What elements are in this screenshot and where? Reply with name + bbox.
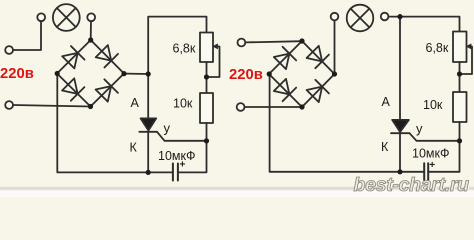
node: cathode 1 bottom rail junction bbox=[146, 170, 151, 175]
svg-text:best-chart.ru: best-chart.ru bbox=[354, 174, 470, 196]
SCR VS1 triangle bbox=[141, 118, 157, 130]
svg-text:6,8к: 6,8к bbox=[426, 41, 449, 55]
diode VD7 (left node to bottom node) bbox=[273, 78, 296, 101]
diode VD4 (bottom node to right node) bbox=[95, 79, 118, 102]
capacitor C1 right plate bbox=[177, 164, 179, 181]
lamp HL2 left terminal bbox=[331, 13, 339, 21]
node: potentiometer 1 wiper junction bbox=[204, 74, 209, 79]
node: bridge 2 left bbox=[267, 71, 272, 76]
wire: potentiometer bottom to 10k resistor bbox=[206, 62, 208, 93]
svg-text:10к: 10к bbox=[423, 98, 443, 112]
wire: bridge 2 left node down and along bottom rail to capacitor bbox=[270, 74, 424, 172]
node: bridge 2 right bbox=[332, 71, 337, 76]
node: bridge 2 bottom bbox=[299, 104, 304, 109]
node: bridge 2 top bbox=[299, 38, 304, 43]
potentiometer R1 wiper arm bbox=[208, 47, 220, 78]
lamp HL1 bbox=[53, 4, 80, 31]
node: gate 2 junction bbox=[457, 138, 462, 143]
wire: lamp right terminal to bridge top node bbox=[90, 21, 92, 40]
svg-text:К: К bbox=[130, 141, 138, 155]
node: bridge 1 left bbox=[55, 71, 60, 76]
svg-text:А: А bbox=[131, 96, 140, 110]
terminal T2 bbox=[5, 101, 13, 109]
diode VD5 (left node to top node) bbox=[273, 47, 296, 70]
svg-text:220в: 220в bbox=[0, 66, 34, 82]
svg-text:у: у bbox=[416, 121, 423, 136]
SCR VS1 cathode bar bbox=[139, 131, 157, 133]
wire: input terminal T3 to bridge top node bbox=[245, 41, 302, 42]
wire: bridge left node down to bottom rail and along bottom to capacitor bbox=[57, 74, 172, 173]
node: SCR 1 anode junction bbox=[146, 71, 151, 76]
svg-text:10мкФ: 10мкФ bbox=[158, 149, 195, 163]
wire: lamp right terminal across top to potentiometer 2 bbox=[388, 17, 459, 32]
SCR VS2 cathode wire to bottom rail bbox=[399, 133, 401, 172]
svg-text:+: + bbox=[180, 160, 186, 171]
lamp left terminal bbox=[37, 13, 45, 21]
node: gate 1 junction bbox=[204, 138, 209, 143]
svg-text:А: А bbox=[382, 95, 391, 109]
SCR VS1 anode wire bbox=[147, 74, 149, 119]
wire: anode node up and across top to potentiometer bbox=[148, 17, 206, 74]
SCR VS2 triangle bbox=[392, 120, 409, 132]
wire: bridge right node to SCR anode node bbox=[124, 73, 148, 75]
terminal T3 bbox=[238, 39, 246, 47]
node: bridge 1 bottom bbox=[88, 104, 93, 109]
resistor R2 10k body bbox=[200, 93, 213, 123]
SCR VS1 cathode wire to bottom rail bbox=[147, 132, 149, 173]
potentiometer R1 wiper arrowhead bbox=[213, 44, 218, 49]
wire: potentiometer 2 bottom to 10k resistor 2 bbox=[459, 62, 461, 92]
lamp HL2 right terminal bbox=[381, 13, 389, 21]
node: bridge 1 right bbox=[121, 71, 126, 76]
diode VD1 (left node to top node) bbox=[61, 46, 84, 69]
svg-text:+: + bbox=[429, 160, 435, 171]
watermark best-chart.ru bbox=[354, 174, 471, 197]
wire: anode node 2 down to SCR 2 bbox=[399, 17, 401, 120]
bottom page edge shadow bbox=[0, 186, 474, 191]
capacitor C1 left plate bbox=[172, 164, 174, 181]
lamp HL2 bbox=[347, 5, 374, 32]
svg-text:К: К bbox=[381, 140, 389, 154]
lamp right terminal bbox=[87, 13, 95, 21]
diode VD6 (top node to right node) bbox=[306, 45, 329, 68]
svg-text:6,8к: 6,8к bbox=[173, 42, 196, 56]
potentiometer R1 6,8k body bbox=[200, 33, 213, 63]
bridge rectifier VD5-VD8 diamond (circuit 2): T(302,41) R(334.5,74) B(302,107) L(269,74) bbox=[269, 41, 335, 107]
potentiometer R3 wiper arrowhead bbox=[466, 44, 471, 49]
bottom white margin bbox=[0, 191, 474, 197]
resistor R4 10k body bbox=[453, 92, 467, 122]
wire: 10k resistor 2 to gate node 2 and down to capacitor 2 bbox=[428, 122, 459, 172]
wire: bridge 2 right node up to lamp left terminal bbox=[334, 20, 336, 74]
node: potentiometer 2 wiper junction bbox=[457, 71, 462, 76]
bridge rectifier VD1-VD4 diamond (circuit 1): T(90.7,40) R(124,73.5) B(90.5,106.5) L(57,73.5) bbox=[57, 40, 124, 107]
wire: input terminal T2 to bridge bottom node bbox=[13, 105, 91, 107]
SCR VS1 gate wire to gate node bbox=[157, 132, 207, 141]
SCR VS2 cathode bar bbox=[391, 132, 410, 134]
capacitor C2 right plate bbox=[427, 163, 429, 180]
svg-text:у: у bbox=[164, 121, 171, 136]
capacitor C2 left plate bbox=[423, 163, 425, 180]
potentiometer R3 6,8k body bbox=[453, 32, 467, 63]
potentiometer R3 wiper arm bbox=[461, 47, 473, 75]
svg-text:10к: 10к bbox=[173, 97, 193, 111]
wire: input terminal T4 to bridge bottom node bbox=[244, 106, 302, 108]
diode VD2 (top node to right node) bbox=[95, 44, 118, 67]
wire: input terminal T1 to lamp left lead bbox=[13, 21, 41, 50]
svg-text:10мкФ: 10мкФ bbox=[412, 147, 449, 161]
node: bridge 1 top bbox=[88, 37, 93, 42]
terminal T1 bbox=[5, 46, 13, 54]
SCR VS2 gate wire to gate node 2 bbox=[410, 133, 460, 141]
node: cathode 2 bottom rail junction bbox=[397, 169, 402, 174]
diode VD8 (bottom node to right node) bbox=[306, 80, 329, 103]
node: SCR 2 anode junction bbox=[397, 14, 402, 19]
wire: 10k resistor to gate node and down to capacitor bbox=[178, 123, 206, 172]
terminal T4 bbox=[237, 103, 245, 111]
svg-text:220в: 220в bbox=[229, 67, 263, 83]
diode VD3 (left node to bottom node) bbox=[61, 78, 84, 101]
